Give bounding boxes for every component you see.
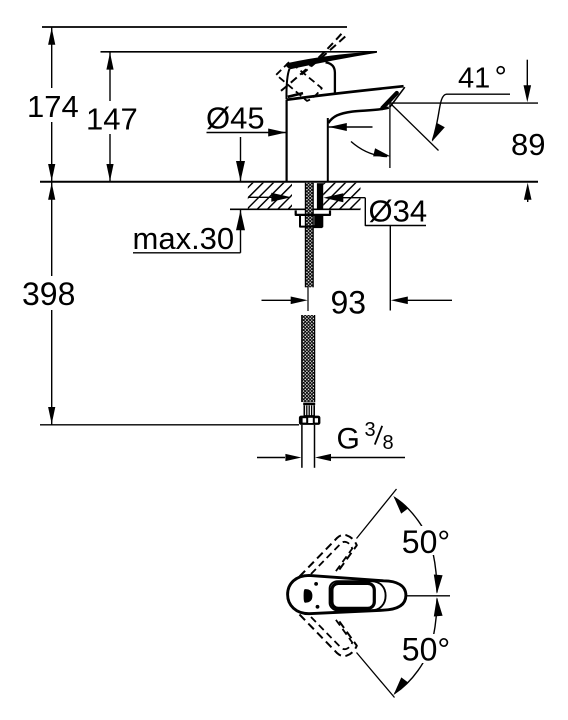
spout mousseur (dark bar) — [382, 93, 396, 108]
dimension 89 top arrow — [524, 60, 532, 103]
dimension 398 vertical line — [48, 182, 55, 425]
label 50° lower — [399, 632, 453, 668]
top view: lever plate top face (thick) — [332, 583, 374, 608]
bottom reference line (hose end level) — [40, 424, 299, 426]
Ø34 centreline down to 93 dimension — [389, 226, 391, 311]
Ø45 extension down-arrow at deck — [236, 137, 245, 182]
label G 3/8 — [337, 419, 394, 456]
max.30 up-arrow to deck bottom — [236, 210, 245, 253]
hole width arrow right — [323, 193, 365, 202]
handle hub front face — [326, 62, 335, 93]
top view: screw dot lower — [316, 605, 320, 609]
svg-text:50°: 50° — [402, 524, 450, 560]
Ø34 leader bracket — [365, 198, 426, 226]
handle lever blade (solid) — [287, 52, 377, 68]
deck bottom line — [230, 208, 361, 210]
top view: screw dot upper — [314, 582, 318, 586]
svg-text:Ø45: Ø45 — [206, 101, 265, 136]
G3/8 pipe end — [302, 425, 315, 468]
top view: upper 50° arc with arrows — [393, 496, 442, 594]
top view: upper 50° ray — [357, 489, 397, 539]
hose ferrule — [303, 403, 315, 416]
countertop deck line — [40, 181, 538, 183]
label 50° upper — [399, 524, 453, 560]
top view: dashed handle rotated up 50° — [300, 535, 357, 577]
dome rear edge — [286, 69, 289, 99]
top view: centreline right of handle — [406, 595, 450, 597]
label max.30 underline — [133, 252, 241, 254]
second shank in hole (dark bar) — [317, 183, 323, 209]
top view: lower 50° ray — [357, 653, 395, 698]
spout tip horizontal extension to 89 dim — [390, 102, 538, 104]
hose hex nut — [299, 416, 321, 425]
svg-text:93: 93 — [331, 285, 367, 321]
svg-text:398: 398 — [22, 276, 75, 312]
hole width arrow left — [248, 193, 291, 202]
41 degree small arc with arrow — [351, 142, 391, 157]
top view: logo blob — [304, 589, 313, 603]
extension line (147 level, handle tip) — [101, 51, 378, 53]
top view: dashed handle rotated down 50° — [300, 615, 357, 657]
svg-text:89: 89 — [511, 127, 545, 162]
spout tip vertical reference line — [389, 104, 391, 169]
deck hatching left of hole — [226, 182, 326, 210]
top view: lower 50° arc with arrows — [393, 597, 442, 695]
extension line top (174 level, raised handle tip) — [42, 26, 347, 28]
faucet body left edge — [286, 100, 288, 181]
svg-text:°: ° — [495, 60, 507, 95]
hose centreline in gap — [307, 287, 309, 312]
raised handle paddle outline (dashed) — [276, 62, 322, 101]
threaded stud through deck (braided texture) — [305, 183, 313, 287]
spout tip end face — [390, 87, 405, 107]
svg-text:174: 174 — [27, 89, 79, 124]
svg-text:max.30: max.30 — [133, 221, 235, 256]
dimension 174 vertical line — [48, 27, 55, 182]
faucet body right edge — [327, 118, 329, 181]
svg-text:50°: 50° — [402, 632, 450, 668]
svg-text:8: 8 — [383, 432, 394, 454]
svg-text:3: 3 — [365, 419, 376, 441]
dimension 147 vertical line — [106, 52, 113, 182]
dimension 89 bottom arrow — [524, 183, 532, 202]
svg-text:Ø34: Ø34 — [369, 194, 428, 229]
mounting washer — [296, 210, 330, 215]
svg-text:41: 41 — [458, 63, 490, 95]
spout top edge — [286, 86, 403, 100]
G3/8 arrows — [257, 454, 405, 461]
braided hose lower section — [302, 315, 315, 402]
spout underside curve — [328, 108, 389, 123]
dimension 93 arrows — [262, 297, 453, 305]
svg-text:147: 147 — [86, 102, 138, 137]
dome bottom seam — [288, 93, 303, 97]
Ø45 arrow at body right edge — [329, 123, 373, 131]
Ø45 leader line with arrow — [207, 129, 287, 137]
raised handle front edge (dashed) — [281, 31, 344, 91]
deck hatching right of hole — [298, 182, 388, 210]
41 degree leader with arrow — [432, 94, 510, 142]
top view: lever plate silhouette — [330, 581, 386, 610]
top view: body+handle outer silhouette — [288, 575, 406, 613]
raised handle rear edge (dashed) — [302, 34, 349, 75]
spout tip 45-degree line — [392, 105, 439, 151]
mounting nut — [300, 215, 322, 228]
svg-text:G: G — [337, 423, 360, 456]
